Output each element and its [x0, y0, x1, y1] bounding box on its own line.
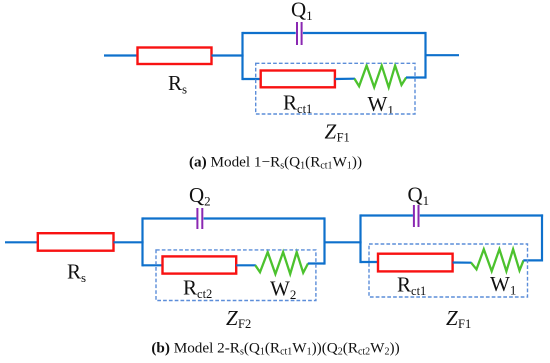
svg-text:Z: Z — [226, 306, 238, 330]
wire: Rct2 to W2 (model b) — [236, 264, 256, 266]
svg-text:Rct2: Rct2 — [183, 276, 212, 302]
wire: Rct1 to W1 (model a) — [335, 78, 355, 81]
wire: second loop top branch right segment from Q1 (model b) — [420, 214, 543, 216]
wire: first loop top branch left segment to Q2 (model b) — [143, 217, 197, 219]
svg-text:F1: F1 — [458, 317, 471, 331]
svg-text:F2: F2 — [238, 317, 251, 331]
capacitor Q2 left plate (model b) — [196, 208, 198, 229]
wire: input lead left of Rs (model b) — [5, 241, 38, 243]
wire: Rs to left junction (model a) — [212, 54, 244, 56]
resistor Rs body (model b) — [38, 233, 114, 251]
wire: left vertical junction bar (model a) — [241, 32, 243, 80]
resistor Rs body (model a) — [138, 48, 212, 65]
svg-text:W2: W2 — [270, 277, 296, 303]
wire: second loop bottom lead into Rct1 (model b) — [361, 261, 379, 263]
svg-text:W1: W1 — [490, 272, 516, 298]
wire: right vertical junction bar (model a) — [424, 32, 426, 79]
wire: W1 to second loop right vertical (model b) — [523, 259, 542, 261]
dashed impedance box ZF2 (model b) — [156, 250, 316, 301]
dashed impedance box ZF1 (model a) — [256, 63, 415, 114]
wire: Rs to first loop (model b) — [114, 241, 144, 243]
svg-text:Z: Z — [446, 306, 458, 330]
Warburg element W2 zigzag (model b) — [255, 252, 308, 274]
svg-text:Q1: Q1 — [408, 183, 430, 209]
svg-text:Rct1: Rct1 — [283, 91, 312, 117]
wire: first loop top branch right segment from Q2 (model b) — [204, 217, 325, 219]
wire: W2 to first loop right vertical (model b) — [308, 262, 325, 264]
svg-text:Rs: Rs — [168, 71, 187, 97]
wire: first loop left vertical bar (model b) — [141, 217, 143, 266]
wire: second loop top branch left segment to Q1 (model b) — [361, 214, 413, 216]
capacitor Q2 right plate (model b) — [201, 208, 203, 229]
svg-text:F1: F1 — [337, 131, 350, 145]
svg-text:Z: Z — [325, 119, 337, 143]
svg-text:Q1: Q1 — [291, 0, 313, 23]
capacitor Q1 left plate (model b) — [413, 205, 415, 227]
wire: W1 to right vertical (model a) — [406, 76, 426, 78]
Warburg element W1 zigzag (model a) — [354, 66, 406, 88]
svg-text:(b) Model 2-Rs(Q1(Rct1W1))(Q2(: (b) Model 2-Rs(Q1(Rct1W1))(Q2(Rct2W2)) — [151, 340, 399, 358]
wire: first loop bottom lead into Rct2 (model b) — [143, 264, 164, 266]
svg-text:Rct1: Rct1 — [397, 273, 426, 299]
wire: bottom branch lead into Rct1 (model a) — [243, 78, 262, 80]
wire: output lead right of parallel loop (model a) — [426, 54, 460, 56]
wire: first loop right vertical bar (model b) — [323, 217, 325, 264]
capacitor Q1 right plate (model b) — [418, 205, 420, 227]
wire: second loop left vertical bar (model b) — [359, 214, 361, 263]
wire: second loop right vertical bar (model b) — [541, 214, 543, 261]
capacitor Q1 right plate (model a) — [301, 22, 303, 45]
svg-text:Q2: Q2 — [189, 183, 211, 209]
wire: series link between loops (model b) — [325, 241, 362, 243]
wire: top branch left segment to Q1 (model a) — [243, 32, 296, 34]
svg-text:(a) Model 1−Rs(Q1(Rct1W1)): (a) Model 1−Rs(Q1(Rct1W1)) — [189, 154, 362, 172]
resistor Rct1 body (model b) — [378, 254, 453, 272]
Warburg element W1 zigzag (model b) — [471, 249, 523, 271]
dashed impedance box ZF1 (model b) — [369, 244, 528, 297]
wire: top branch right segment from Q1 (model a) — [303, 32, 426, 34]
svg-text:Rs: Rs — [67, 260, 86, 286]
capacitor Q1 left plate (model a) — [296, 22, 298, 45]
resistor Rct1 body (model a) — [261, 71, 335, 88]
resistor Rct2 body (model b) — [163, 256, 237, 273]
wire: Rct1 to W1 (model b) — [453, 261, 472, 263]
wire: input lead left of Rs (model a) — [104, 54, 138, 56]
